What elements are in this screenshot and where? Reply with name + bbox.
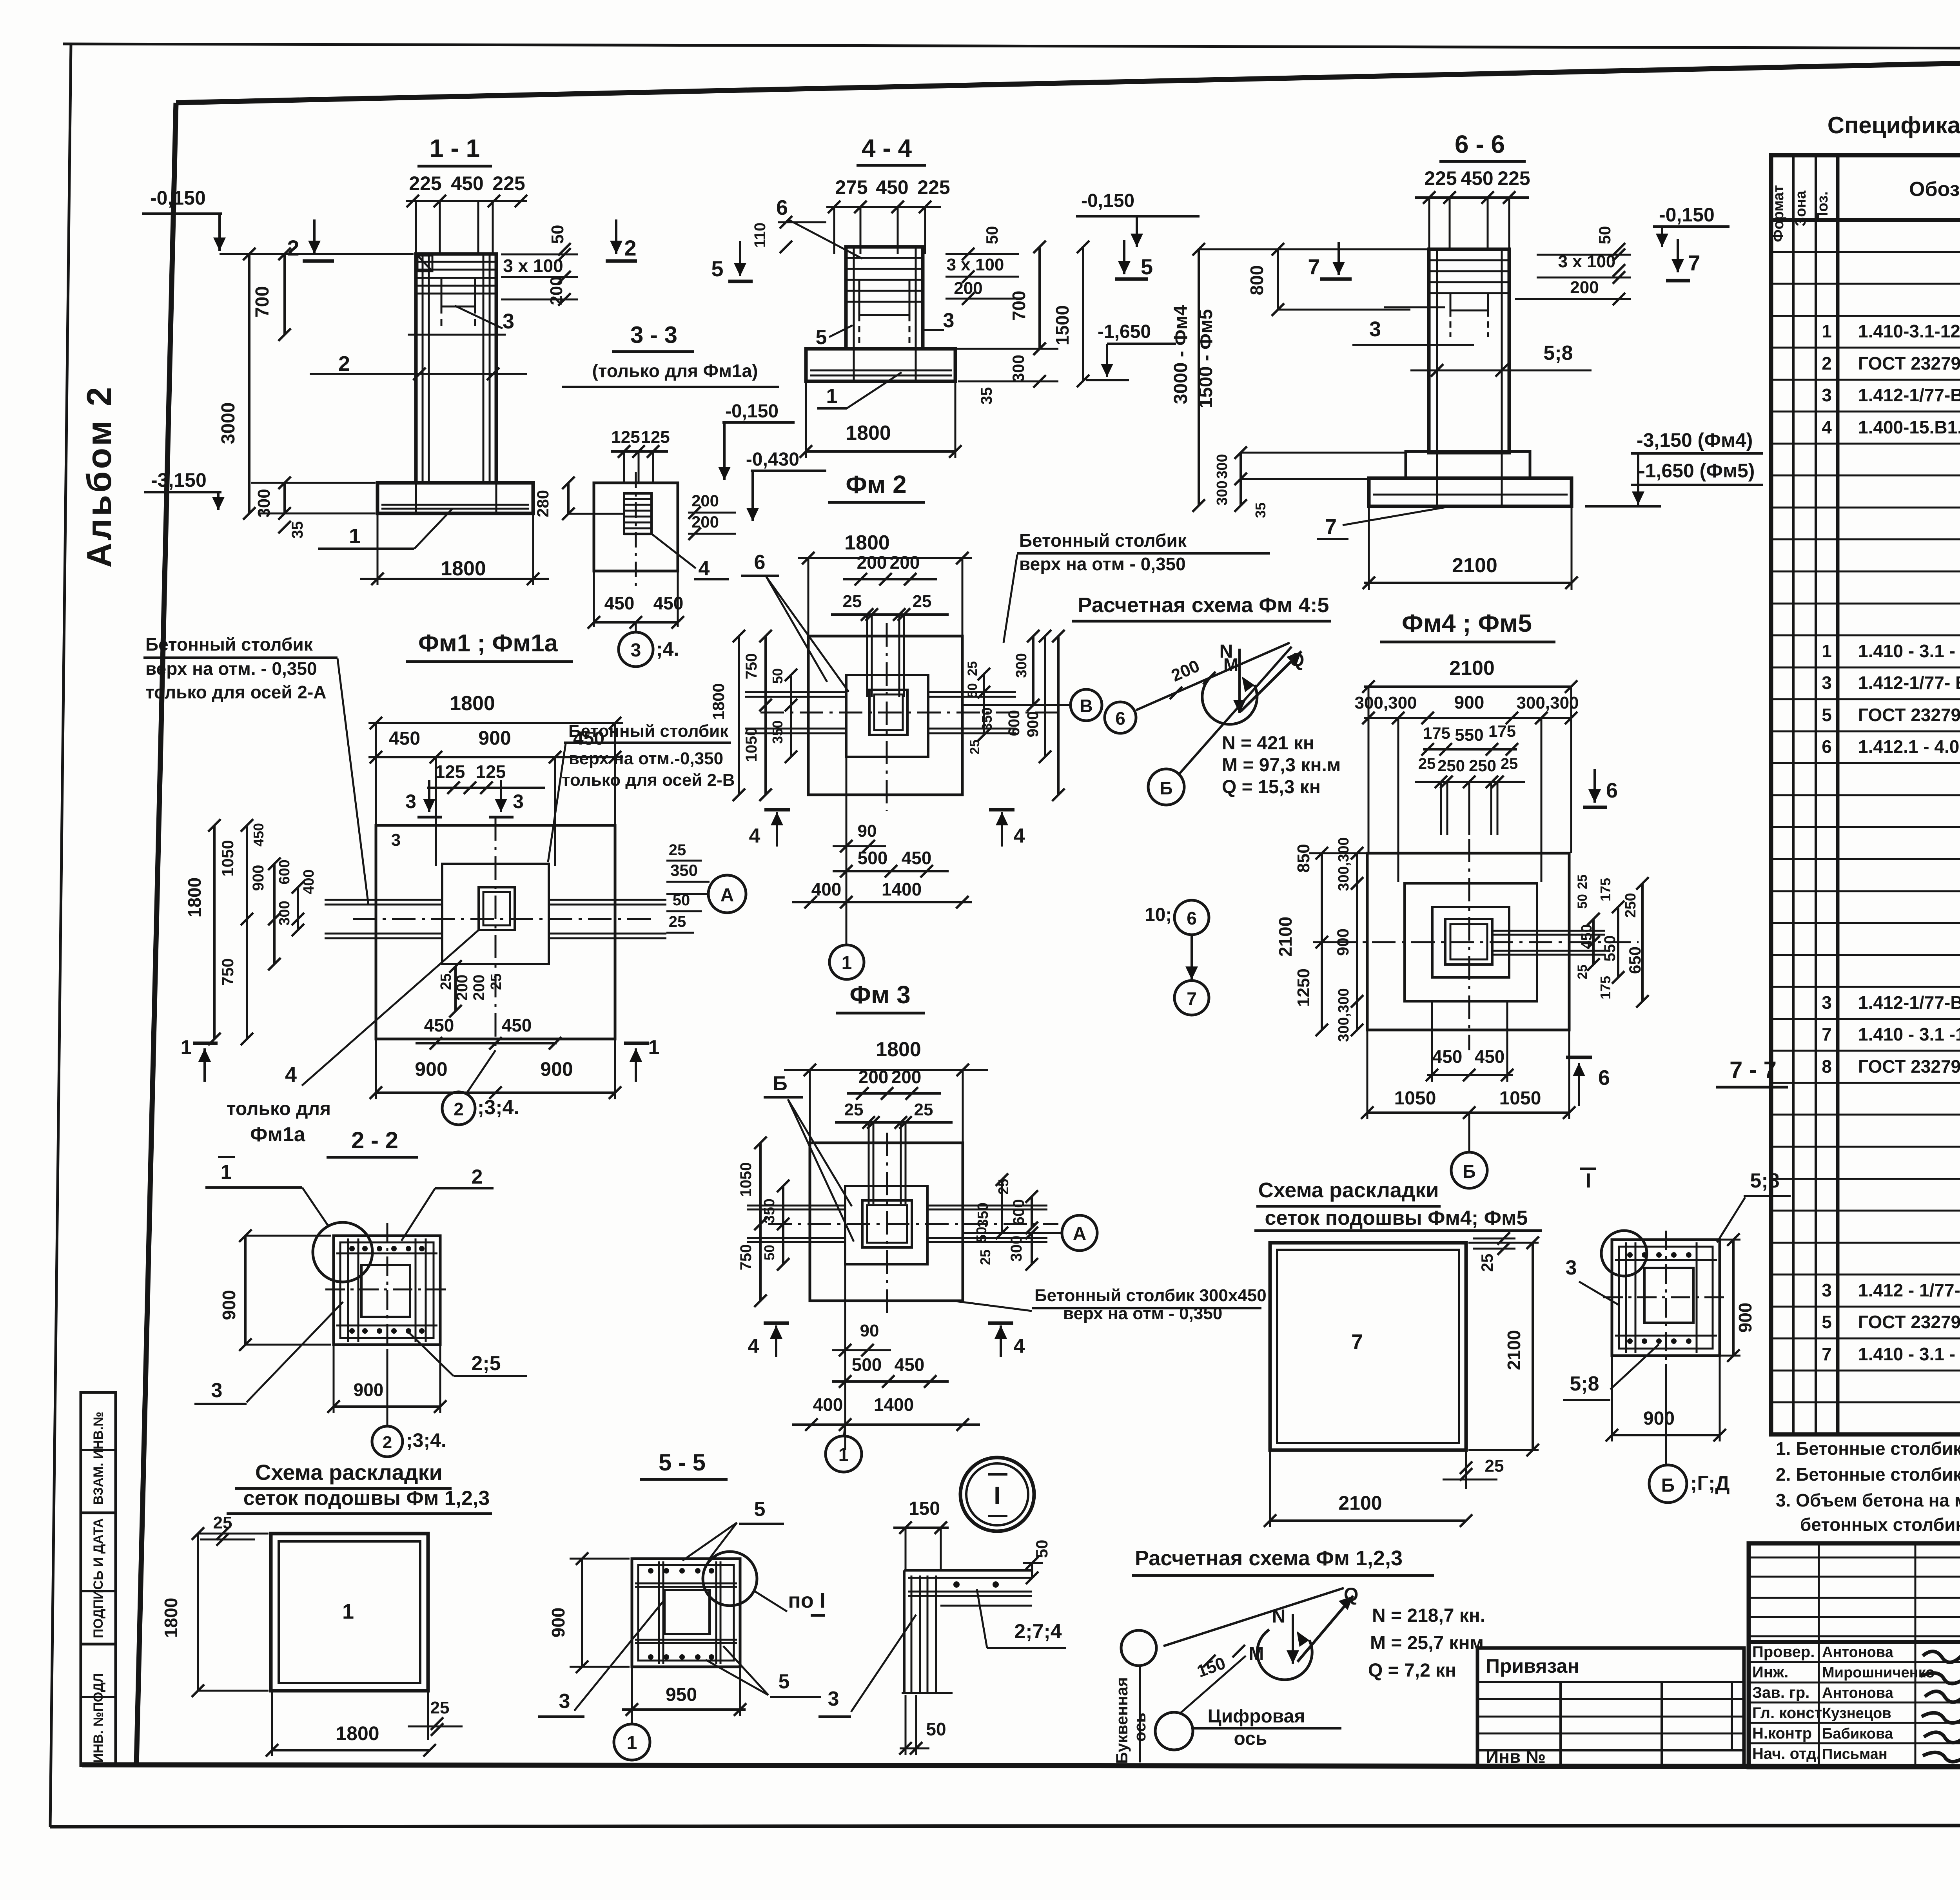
svg-text:4: 4 [749, 825, 760, 847]
svg-text:280: 280 [534, 490, 552, 517]
svg-text:1.410 - 3.1 - 12: 1.410 - 3.1 - 12 [1858, 641, 1960, 661]
svg-text:275: 275 [835, 176, 867, 198]
svg-text:1: 1 [842, 953, 852, 974]
svg-text:550: 550 [1601, 935, 1619, 962]
6-6 footing slab [1369, 478, 1572, 506]
svg-text:750: 750 [737, 1244, 755, 1271]
svg-text:225: 225 [917, 176, 950, 198]
plan FM2 wings rebar [745, 691, 846, 693]
svg-text:1800: 1800 [184, 877, 205, 917]
svg-text:5: 5 [1822, 1312, 1832, 1332]
svg-text:2: 2 [287, 236, 299, 260]
svg-text:1.412 - 1/77- В.3-020: 1.412 - 1/77- В.3-020 [1858, 1280, 1960, 1300]
svg-text:900: 900 [1454, 692, 1485, 712]
svg-text:300: 300 [1009, 355, 1027, 382]
svg-text:Б: Б [1160, 778, 1172, 798]
svg-text:125: 125 [435, 761, 465, 782]
svg-text:3: 3 [1822, 673, 1832, 693]
svg-text:350: 350 [670, 861, 698, 879]
svg-text:25: 25 [1575, 874, 1590, 889]
svg-text:1: 1 [838, 1445, 849, 1465]
svg-text:-0,150: -0,150 [1659, 204, 1715, 226]
axis circle 1 below FM2 [829, 945, 864, 979]
svg-text:3: 3 [1566, 1256, 1577, 1279]
svg-text:600: 600 [1010, 1199, 1027, 1226]
axis circle B G D [1649, 1465, 1687, 1503]
svg-text:1: 1 [342, 1600, 354, 1623]
svg-text:50: 50 [965, 683, 980, 698]
column 1-1 body [416, 254, 496, 483]
2-2 rebar dots [349, 1246, 355, 1251]
svg-text:7: 7 [1308, 254, 1320, 279]
svg-text:125: 125 [476, 761, 506, 782]
svg-text:3: 3 [503, 310, 514, 333]
spec table column lines [1792, 155, 1795, 1434]
svg-text:50: 50 [548, 225, 567, 244]
svg-text:1050: 1050 [737, 1162, 755, 1197]
svg-text:2. Бетонные столбики на виде 1: 2. Бетонные столбики на виде 1-1 условно… [1776, 1464, 1960, 1485]
svg-text:50: 50 [761, 1245, 777, 1260]
svg-text:25: 25 [1478, 1254, 1496, 1272]
svg-text:5: 5 [779, 1670, 790, 1693]
svg-text:по I: по I [788, 1589, 826, 1612]
svg-text:Схема раскладки: Схема раскладки [255, 1460, 443, 1485]
svg-text:3: 3 [513, 790, 524, 812]
svg-text:900: 900 [354, 1380, 384, 1400]
axis circle 1 below FM3 [826, 1436, 862, 1472]
svg-text:2: 2 [1822, 353, 1832, 373]
calc scheme M arc [1202, 675, 1257, 724]
svg-text:I: I [1586, 1169, 1591, 1192]
svg-text:ГОСТ 23279-85: ГОСТ 23279-85 [1858, 705, 1960, 725]
layout FM45 square [1270, 1243, 1466, 1450]
svg-text:900: 900 [1643, 1408, 1675, 1429]
svg-text:200: 200 [1570, 278, 1599, 297]
svg-text:90: 90 [858, 821, 877, 841]
svg-text:N = 218,7 кн.: N = 218,7 кн. [1372, 1605, 1485, 1626]
svg-text:Обозначение: Обозначение [1909, 178, 1960, 201]
svg-text:Расчетная схема Фм 1,2,3: Расчетная схема Фм 1,2,3 [1135, 1546, 1403, 1570]
svg-text:1: 1 [627, 1733, 637, 1753]
plan FM45 rebar dowels [1440, 782, 1442, 835]
5-5 rebar bars [658, 1561, 660, 1664]
svg-text:ГОСТ 23279-85: ГОСТ 23279-85 [1858, 1312, 1960, 1332]
svg-text:150: 150 [909, 1498, 940, 1519]
5-5 square [632, 1559, 740, 1667]
svg-text:950: 950 [666, 1684, 697, 1705]
svg-text:1500: 1500 [1052, 305, 1073, 345]
svg-text:1: 1 [826, 385, 838, 408]
svg-text:;4.: ;4. [656, 638, 679, 660]
svg-text:600: 600 [276, 859, 293, 884]
plan FM3 column [862, 1200, 912, 1247]
svg-text:125: 125 [611, 428, 640, 447]
svg-text:В: В [1080, 696, 1093, 716]
svg-text:125: 125 [641, 428, 670, 447]
svg-text:3: 3 [1822, 385, 1832, 405]
svg-text:25: 25 [1485, 1456, 1504, 1476]
plan FM3 outer square [810, 1143, 963, 1301]
svg-text:1400: 1400 [882, 879, 922, 899]
svg-text:1.410 - 3.1 -12: 1.410 - 3.1 -12 [1858, 1024, 1960, 1044]
svg-text:300: 300 [1214, 454, 1230, 479]
plan FM1 wings [325, 899, 442, 901]
svg-text:;3;4.: ;3;4. [406, 1429, 446, 1451]
svg-text:-0,150: -0,150 [1081, 190, 1134, 211]
plan FM3 wings [747, 1205, 845, 1207]
7-7 detail circle [1601, 1231, 1647, 1276]
svg-text:4: 4 [285, 1063, 297, 1086]
5-5 detail circle [703, 1552, 757, 1606]
svg-text:350: 350 [975, 1202, 991, 1227]
plan FM45 wing rebars [1492, 930, 1605, 932]
svg-text:I: I [994, 1481, 1001, 1510]
svg-text:1. Бетонные столбики выполнить: 1. Бетонные столбики выполнить в одной о… [1776, 1438, 1960, 1459]
svg-text:1050: 1050 [743, 727, 760, 762]
svg-text:Фм4 ; Фм5: Фм4 ; Фм5 [1402, 609, 1532, 637]
svg-text:25: 25 [213, 1513, 232, 1532]
svg-text:сеток подошвы Фм 1,2,3: сеток подошвы Фм 1,2,3 [243, 1487, 490, 1510]
svg-text:Зона: Зона [1793, 190, 1809, 227]
svg-text:верх на отм. - 0,350: верх на отм. - 0,350 [145, 658, 317, 679]
svg-text:1800: 1800 [161, 1598, 181, 1638]
svg-text:M = 97,3 кн.м: M = 97,3 кн.м [1222, 755, 1341, 776]
svg-text:(только для Фм1а): (только для Фм1а) [592, 361, 758, 381]
svg-text:Инв №: Инв № [1486, 1746, 1546, 1767]
column 6-6 body [1429, 249, 1509, 453]
svg-text:25: 25 [967, 740, 982, 754]
column 4-4 mesh lines [848, 257, 921, 259]
axis circle 3 ;4 [619, 632, 653, 667]
svg-text:Провер.: Провер. [1752, 1643, 1815, 1661]
svg-text:2;7;4: 2;7;4 [1014, 1620, 1062, 1643]
svg-text:1800: 1800 [450, 692, 495, 715]
svg-text:5;8: 5;8 [1543, 342, 1573, 364]
svg-text:400: 400 [813, 1394, 843, 1415]
svg-text:6: 6 [1606, 779, 1618, 802]
svg-text:90: 90 [860, 1321, 879, 1340]
svg-text:25: 25 [438, 974, 454, 990]
svg-text:900: 900 [219, 1290, 239, 1320]
svg-text:3 x 100: 3 x 100 [947, 255, 1004, 274]
svg-text:3 x 100: 3 x 100 [503, 256, 563, 276]
svg-text:7: 7 [1351, 1330, 1363, 1354]
plan FM1 column [479, 887, 515, 930]
svg-text:4: 4 [699, 557, 710, 580]
svg-text:25: 25 [488, 974, 505, 990]
svg-text:700: 700 [252, 286, 273, 317]
svg-text:25: 25 [1418, 755, 1436, 772]
svg-text:1800: 1800 [336, 1722, 379, 1744]
svg-text:200: 200 [857, 552, 887, 573]
vertical dim 700 [283, 254, 286, 335]
svg-text:Антонова: Антонова [1822, 1685, 1894, 1701]
svg-text:2100: 2100 [1452, 554, 1497, 577]
detail I corner bars [903, 1570, 906, 1693]
svg-text:250: 250 [1437, 756, 1465, 775]
svg-text:450: 450 [424, 1015, 454, 1035]
2-2 detail circle [313, 1222, 372, 1282]
svg-text:Буквенная: Буквенная [1112, 1677, 1131, 1764]
svg-text:Фм 3: Фм 3 [849, 981, 910, 1009]
svg-text:10;: 10; [1145, 905, 1172, 925]
svg-text:Схема раскладки: Схема раскладки [1258, 1178, 1439, 1202]
svg-text:6 - 6: 6 - 6 [1455, 130, 1505, 158]
svg-text:900: 900 [415, 1058, 447, 1080]
svg-text:ПОДПИСЬ И ДАТА: ПОДПИСЬ И ДАТА [91, 1518, 106, 1638]
svg-text:5: 5 [754, 1498, 766, 1521]
svg-text:7: 7 [1325, 515, 1337, 538]
column 6-6 mesh lines [1430, 259, 1508, 261]
svg-text:5: 5 [1822, 705, 1832, 725]
detail I bar dots [953, 1581, 960, 1588]
svg-text:300,300: 300,300 [1336, 988, 1352, 1042]
svg-text:300,300: 300,300 [1354, 693, 1417, 712]
svg-text:3: 3 [559, 1690, 570, 1713]
plan FM3 rebar dowels top [868, 1122, 870, 1204]
svg-text:Мирошниченко: Мирошниченко [1822, 1664, 1935, 1681]
svg-text:25: 25 [430, 1698, 450, 1717]
svg-text:50: 50 [1033, 1540, 1051, 1558]
svg-text:Цифровая: Цифровая [1208, 1706, 1305, 1727]
7-7 inner square [1644, 1268, 1693, 1323]
svg-text:2: 2 [624, 236, 636, 260]
5-5 inner square [664, 1590, 710, 1634]
svg-text:200: 200 [954, 279, 982, 298]
svg-text:4 - 4: 4 - 4 [862, 134, 912, 162]
svg-text:А: А [720, 885, 734, 906]
svg-text:только для осей 2-А: только для осей 2-А [145, 682, 327, 702]
svg-text:M = 25,7 кнм.: M = 25,7 кнм. [1370, 1633, 1489, 1653]
svg-text:верх на отм - 0,350: верх на отм - 0,350 [1019, 554, 1186, 574]
title block frame [1749, 1543, 1960, 1767]
privyazan block [1477, 1648, 1744, 1767]
vertical dim 3000 [248, 254, 250, 513]
svg-text:350: 350 [979, 707, 995, 731]
vertical dims 700 1500 [1038, 247, 1041, 349]
svg-text:4: 4 [1822, 417, 1832, 437]
svg-text:900: 900 [540, 1058, 573, 1080]
svg-text:1050: 1050 [1394, 1088, 1436, 1109]
6-6 pedestal step [1406, 451, 1530, 478]
svg-text:450: 450 [389, 728, 420, 749]
svg-text:900: 900 [1735, 1303, 1755, 1333]
title block revision grid [1749, 1640, 1960, 1644]
svg-text:8: 8 [1822, 1056, 1832, 1077]
plan FM1 centerlines [495, 817, 497, 1050]
svg-text:25: 25 [1501, 755, 1518, 772]
2-2 inner square [361, 1265, 410, 1317]
page outer border [63, 44, 1960, 49]
svg-text:750: 750 [218, 958, 237, 986]
svg-text:Альбом 2: Альбом 2 [80, 385, 118, 568]
column 4-4 body [846, 247, 923, 349]
svg-text:500: 500 [858, 848, 888, 868]
plan FM1 outer square [376, 825, 615, 1039]
svg-text:225: 225 [492, 172, 525, 194]
2-2 rebar bars [347, 1238, 349, 1342]
svg-text:Бетонный столбик: Бетонный столбик [145, 634, 313, 654]
plan FM45 middle square [1405, 883, 1537, 1001]
column 1-1 dashed inner stirrup [441, 278, 475, 306]
plan FM2 column [869, 690, 907, 735]
svg-text:850: 850 [1294, 844, 1313, 872]
svg-text:N: N [1272, 1606, 1286, 1627]
svg-text:-0,430: -0,430 [746, 449, 799, 470]
svg-text:175: 175 [1423, 724, 1450, 742]
svg-text:3: 3 [405, 790, 416, 812]
svg-text:1: 1 [221, 1161, 232, 1184]
svg-text:3: 3 [943, 309, 955, 332]
7-7 rebar bars [1625, 1242, 1627, 1353]
svg-text:Гл. конст: Гл. конст [1752, 1704, 1822, 1722]
svg-text:3: 3 [1369, 317, 1381, 341]
svg-text:25: 25 [995, 1179, 1011, 1195]
svg-text:25: 25 [844, 1100, 864, 1119]
svg-text:1800: 1800 [876, 1038, 921, 1061]
hatched embed plate [624, 493, 652, 534]
svg-text:3000 - Фм4: 3000 - Фм4 [1171, 305, 1191, 404]
svg-text:3. Объем бетона на монолитные: 3. Объем бетона на монолитные фундаменты… [1776, 1490, 1960, 1510]
drawing frame [176, 51, 1960, 103]
svg-text:2100: 2100 [1275, 917, 1296, 957]
svg-text:25: 25 [914, 1100, 933, 1119]
svg-text:175: 175 [1597, 976, 1613, 999]
svg-text:450: 450 [250, 823, 267, 847]
svg-text:ВЗАМ. ИНВ.№: ВЗАМ. ИНВ.№ [91, 1412, 106, 1505]
svg-text:7: 7 [1688, 250, 1700, 275]
axis circle B right of FM2 [1071, 689, 1102, 721]
column 6-6 dashed stirrup [1450, 293, 1488, 310]
svg-text:7: 7 [1187, 988, 1197, 1009]
svg-text:200: 200 [691, 491, 719, 510]
svg-text:900: 900 [250, 865, 267, 891]
svg-text:Поз.: Поз. [1815, 191, 1831, 222]
calc scheme FM123 diagonal [1163, 1588, 1344, 1646]
svg-text:175: 175 [1597, 878, 1613, 901]
svg-text:2100: 2100 [1338, 1492, 1382, 1514]
svg-text:550: 550 [1455, 725, 1483, 745]
svg-text:225: 225 [409, 172, 441, 194]
svg-text:-3,150 (Фм4): -3,150 (Фм4) [1637, 429, 1753, 451]
svg-text:2: 2 [472, 1166, 483, 1188]
plan FM45 centerlines [1468, 839, 1470, 1050]
svg-text:800: 800 [1247, 265, 1267, 296]
svg-text:Привязан: Привязан [1486, 1655, 1579, 1677]
svg-text:2;5: 2;5 [471, 1352, 501, 1375]
svg-text:3: 3 [391, 830, 401, 850]
svg-text:300,300: 300,300 [1516, 693, 1579, 712]
svg-text:4: 4 [1014, 825, 1025, 847]
svg-text:450: 450 [1475, 1046, 1505, 1067]
svg-text:5: 5 [711, 256, 723, 281]
svg-text:Б: Б [1661, 1475, 1675, 1496]
svg-text:-1,650: -1,650 [1098, 321, 1151, 342]
svg-text:Q = 7,2 кн: Q = 7,2 кн [1368, 1660, 1456, 1681]
svg-text:А: А [1073, 1224, 1087, 1244]
svg-text:6: 6 [776, 196, 788, 219]
svg-text:Антонова: Антонова [1822, 1644, 1894, 1661]
svg-text:25: 25 [977, 1249, 993, 1265]
svg-text:1800: 1800 [441, 557, 486, 580]
spec table frame [1771, 155, 1960, 1434]
svg-text:3: 3 [1822, 992, 1832, 1013]
plan FM2 centerlines [886, 623, 888, 811]
svg-text:4: 4 [1014, 1335, 1025, 1358]
svg-text:200: 200 [890, 552, 920, 573]
column 4-4 lower body [853, 349, 855, 352]
axis circle 1 below 5-5 [614, 1724, 650, 1760]
svg-text:;Г;Д: ;Г;Д [1690, 1472, 1730, 1495]
svg-text:900: 900 [478, 727, 511, 749]
calc scheme diagonal with 200 [1136, 643, 1290, 710]
svg-text:6: 6 [1822, 736, 1832, 757]
plan FM2 outer square [808, 636, 962, 795]
svg-text:450: 450 [451, 172, 483, 194]
svg-text:Бабикова: Бабикова [1822, 1726, 1893, 1742]
svg-text:-0,150: -0,150 [725, 401, 779, 422]
svg-text:450: 450 [604, 593, 635, 613]
svg-text:-3,150: -3,150 [151, 469, 207, 491]
svg-text:1800: 1800 [846, 422, 891, 444]
svg-text:25: 25 [669, 841, 686, 859]
svg-text:2100: 2100 [1449, 657, 1495, 680]
svg-text:1050: 1050 [218, 840, 237, 876]
svg-text:35: 35 [1252, 502, 1269, 518]
svg-text:1.412.1 - 4.060: 1.412.1 - 4.060 [1858, 736, 1960, 757]
svg-text:1 - 1: 1 - 1 [430, 134, 480, 162]
footing slab 4-4 [806, 349, 955, 381]
svg-text:175: 175 [1488, 722, 1516, 740]
svg-text:25: 25 [1575, 965, 1590, 979]
svg-text:1.400-15.В1. 150-56: 1.400-15.В1. 150-56 [1858, 417, 1960, 437]
plan FM45 column [1445, 919, 1492, 965]
svg-text:900: 900 [548, 1608, 568, 1638]
svg-text:Н.контр: Н.контр [1752, 1725, 1812, 1742]
svg-text:650: 650 [1626, 946, 1644, 974]
axis circle A right FM3 [1062, 1215, 1097, 1251]
svg-text:25: 25 [965, 661, 980, 676]
svg-text:Кузнецов: Кузнецов [1822, 1705, 1891, 1722]
svg-text:верх на отм.-0,350: верх на отм.-0,350 [569, 749, 723, 768]
svg-text:600: 600 [1005, 710, 1023, 736]
svg-text:200: 200 [891, 1067, 922, 1087]
calc scheme axis circle B lower [1148, 769, 1184, 805]
svg-text:Q: Q [1344, 1585, 1358, 1605]
svg-text:35: 35 [289, 521, 306, 539]
svg-text:1250: 1250 [1294, 968, 1313, 1007]
svg-text:Бетонный столбик: Бетонный столбик [568, 722, 729, 741]
svg-text:1: 1 [1822, 321, 1832, 341]
svg-text:Q: Q [1290, 650, 1304, 671]
svg-text:3: 3 [211, 1379, 223, 1402]
svg-text:Q = 15,3 кн: Q = 15,3 кн [1222, 777, 1321, 798]
svg-text:300: 300 [1013, 653, 1030, 678]
svg-text:250: 250 [1622, 893, 1639, 917]
svg-text:Б: Б [773, 1072, 787, 1095]
svg-text:450: 450 [653, 593, 684, 613]
svg-text:3 - 3: 3 - 3 [630, 322, 677, 348]
digit axis circle [1155, 1712, 1193, 1750]
svg-text:1: 1 [648, 1036, 660, 1059]
svg-text:Фм1 ; Фм1а: Фм1 ; Фм1а [418, 630, 558, 657]
svg-text:верх на отм - 0,350: верх на отм - 0,350 [1063, 1304, 1222, 1323]
svg-text:3: 3 [828, 1688, 839, 1710]
svg-text:5;8: 5;8 [1570, 1372, 1599, 1395]
spec table rows [1771, 251, 1960, 253]
svg-text:Спецификация элементов монол: Спецификация элементов монолитной констр… [1828, 112, 1960, 138]
column 1-1 top mesh lines [417, 261, 495, 263]
